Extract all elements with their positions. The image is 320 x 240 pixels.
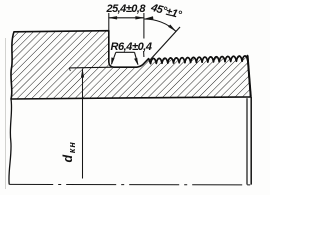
dimension 25,4±0,8: right arrowhead	[135, 16, 144, 19]
dimension d_kn: arrowhead	[81, 68, 84, 77]
angular dimension 45°±1°: right arrowhead	[168, 25, 176, 32]
dimension 25,4±0,8: left arrowhead	[108, 16, 117, 19]
groove bottom diameter extension line	[69, 66, 112, 69]
leader R6,4±0,4: right leader line	[135, 52, 138, 64]
leader R6,4±0,4: shelf bar	[116, 51, 135, 53]
svg-text:45°±1°: 45°±1°	[149, 2, 184, 22]
extension line end tick	[69, 68, 70, 71]
leader R6,4±0,4: right arrowhead	[134, 58, 138, 66]
svg-text:R6,4±0,4: R6,4±0,4	[111, 41, 153, 53]
svg-text:25,4±0,8: 25,4±0,8	[106, 3, 147, 15]
angular dimension 45°±1°: left arrowhead	[144, 16, 153, 19]
dimension 25,4±0,8: right extension line	[143, 13, 145, 39]
chamfer 45 degree construction line	[150, 27, 181, 61]
thread profile overdraw (bolder)	[149, 56, 251, 97]
leader R6,4±0,4: left leader line	[112, 52, 116, 64]
axis centerline (dash-dot)	[9, 183, 253, 186]
dimension 25,4±0,8: left extension line	[108, 13, 110, 31]
dimension 25,4±0,8: dimension line	[109, 17, 144, 19]
scan artifact: faint left margin line	[5, 38, 7, 189]
thread end chamfer edge (bold)	[248, 56, 251, 97]
lower shaft body left break edge (wavy)	[9, 99, 12, 184]
chamfer edge line	[246, 98, 248, 184]
dimension d_kn: line	[82, 69, 84, 179]
angular dimension 45°±1°: arc	[144, 19, 176, 31]
leader R6,4±0,4: left arrowhead	[111, 57, 114, 65]
shaft end face	[250, 97, 252, 185]
svg-text:dкн: dкн	[61, 141, 77, 163]
shaft sectioned wall (hatched region with groove and thread profile)	[11, 31, 251, 99]
